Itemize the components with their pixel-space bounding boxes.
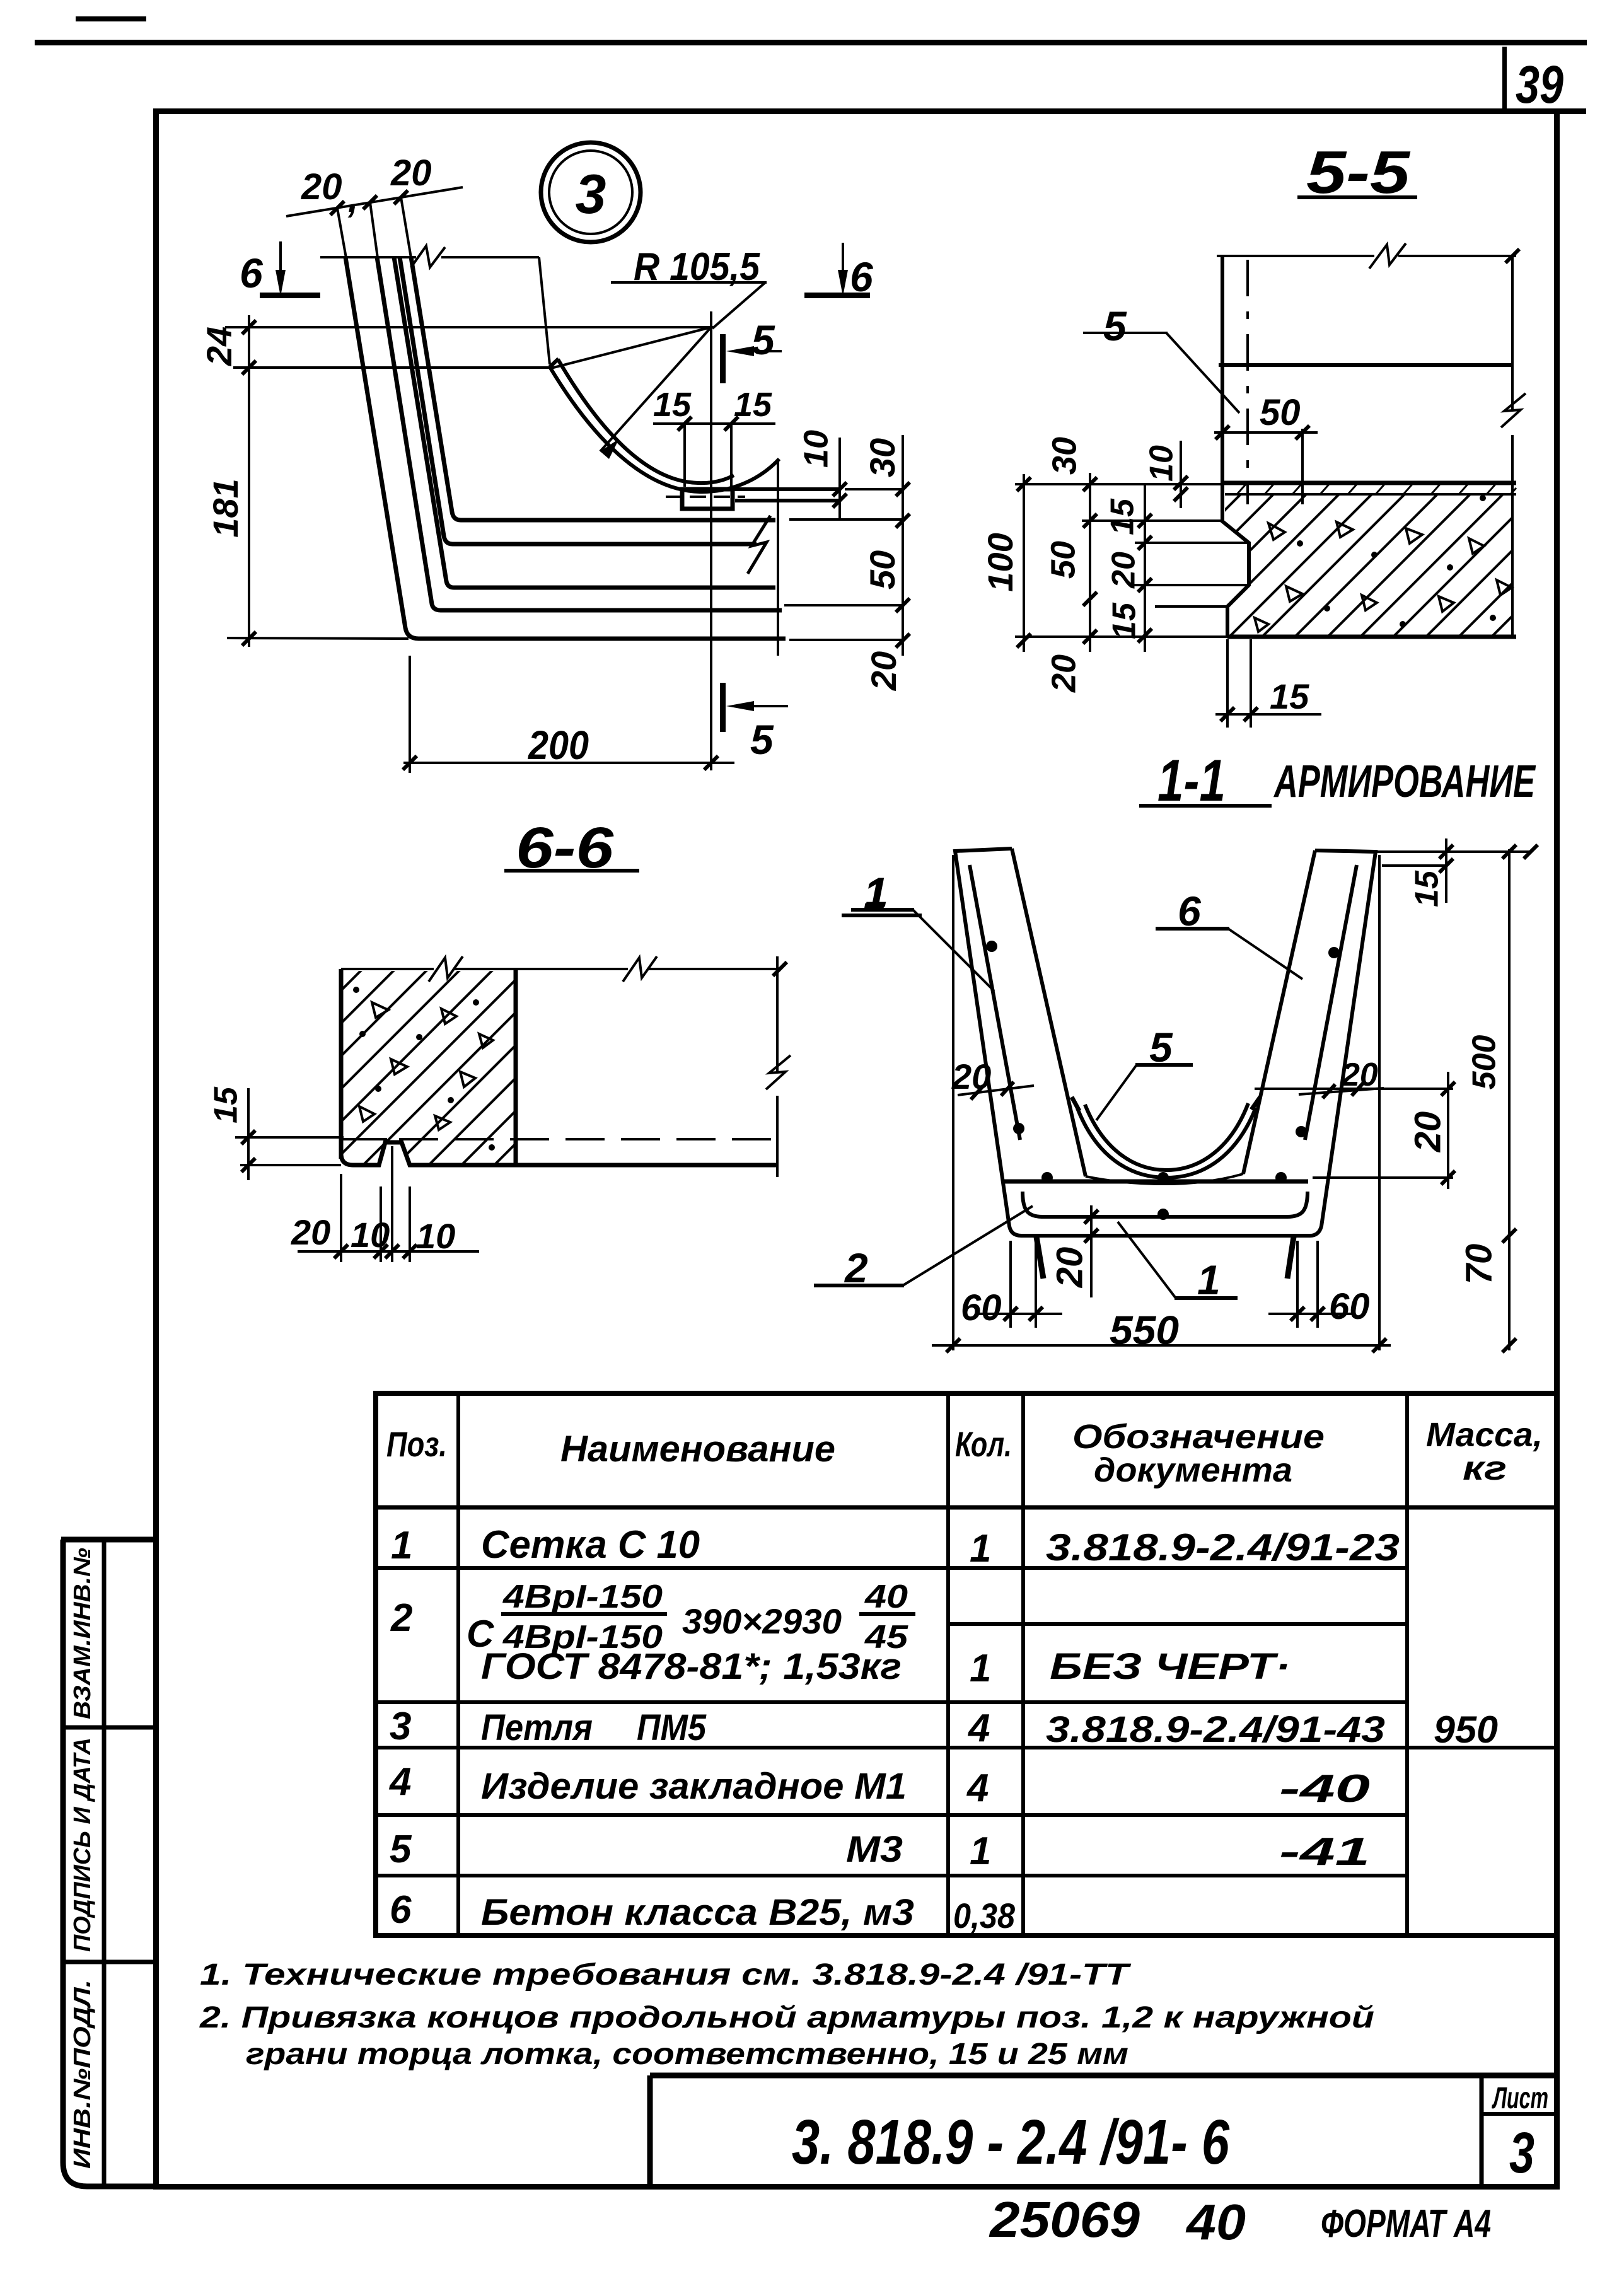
block left edge <box>339 969 344 1159</box>
slab bottom thick <box>1227 635 1516 639</box>
svg-text:4ВрI-150: 4ВрI-150 <box>502 1579 663 1615</box>
ext 550 left <box>952 855 954 1350</box>
title block list underline <box>1482 2112 1557 2116</box>
stamp column outer border <box>61 1540 156 2186</box>
ext 66 v4 <box>409 1187 411 1262</box>
inner wall surface <box>539 257 550 364</box>
svg-text:30: 30 <box>1045 437 1083 475</box>
slab top thick <box>1222 481 1516 485</box>
svg-text:грани торца лотка, соответстве: грани торца лотка, соответственно, 15 и … <box>246 2038 1128 2071</box>
svg-text:-40: -40 <box>1279 1767 1370 1811</box>
tick c2 <box>1083 514 1097 528</box>
tick 20B a <box>1084 1210 1098 1224</box>
radius arrowhead <box>600 439 619 459</box>
svg-text:ВЗАМ.ИНВ.№: ВЗАМ.ИНВ.№ <box>69 1548 96 1719</box>
tick 500 bottom <box>1502 1229 1516 1243</box>
break squiggle 66a <box>429 956 463 982</box>
svg-text:ПМ5: ПМ5 <box>637 1707 707 1748</box>
leader 1 top diagonal <box>913 910 994 991</box>
tick 70 bottom <box>1502 1338 1516 1352</box>
svg-text:6: 6 <box>390 1888 412 1932</box>
svg-text:5: 5 <box>751 316 775 363</box>
ext 15 line <box>1382 864 1446 867</box>
dim 60 left line <box>979 1313 1062 1315</box>
marker 5 top bar <box>720 334 726 383</box>
wall line C <box>394 257 775 588</box>
tick f1 <box>1221 707 1234 721</box>
mesh dot b <box>1157 1172 1169 1183</box>
marker 5 top arrowhead <box>726 346 754 356</box>
groove dashed axis <box>666 496 745 498</box>
svg-text:390×2930: 390×2930 <box>682 1601 842 1641</box>
right wall rebar <box>1305 865 1357 1140</box>
extension line 24 bottom <box>233 366 550 369</box>
svg-text:30: 30 <box>862 438 902 477</box>
tick 24 bottom <box>242 361 256 374</box>
svg-text:1: 1 <box>970 1527 991 1570</box>
svg-text:2: 2 <box>390 1596 412 1640</box>
ledge bottom line <box>735 499 841 502</box>
right wall inner face <box>1243 850 1315 1174</box>
wall top edge with break <box>320 256 539 258</box>
svg-text:2. Привязка концов продольной: 2. Привязка концов продольной арматуры п… <box>199 2001 1374 2034</box>
centerline vertical <box>710 311 712 770</box>
section 5-5 underline <box>1297 195 1417 199</box>
tick 20R b <box>1352 1082 1364 1096</box>
table row line 3 <box>376 1746 1557 1749</box>
tick 20L a <box>971 1086 983 1099</box>
svg-text:100: 100 <box>980 533 1020 591</box>
svg-text:3: 3 <box>1509 2121 1534 2185</box>
left foot <box>1036 1237 1043 1279</box>
svg-text:6: 6 <box>240 250 264 296</box>
dim 15 66 vertical <box>247 1088 250 1180</box>
tick h3 <box>385 1245 399 1258</box>
liner left hook <box>1072 1097 1079 1111</box>
svg-text:10: 10 <box>416 1216 455 1256</box>
ext 15 66 top <box>235 1136 344 1139</box>
rebar dot c <box>1328 947 1340 958</box>
svg-text:,: , <box>347 179 358 220</box>
ext 66 v1 <box>340 1174 342 1262</box>
svg-text:Лист: Лист <box>1492 2082 1548 2115</box>
R leader underline <box>611 281 767 284</box>
title block left <box>647 2075 653 2186</box>
groove rectangle <box>682 489 733 509</box>
dashed axis <box>1246 260 1249 504</box>
marker 2 underline <box>814 1284 904 1287</box>
tick 30 top <box>896 482 910 496</box>
tick c1 <box>1083 477 1097 491</box>
detail circle 3 outer <box>541 142 641 242</box>
marker 6 left arrow <box>279 241 282 281</box>
tick 15 right <box>724 417 738 431</box>
svg-text:R 105,5: R 105,5 <box>634 245 760 289</box>
ext ledge to chain <box>845 488 903 490</box>
left wall inner face <box>1012 849 1086 1176</box>
svg-text:5: 5 <box>750 716 774 763</box>
dim 200 line <box>403 762 734 764</box>
ext 66 v2 <box>380 1187 382 1262</box>
frame top edge <box>153 108 1586 114</box>
liner outer arc <box>550 367 779 492</box>
tick f2 <box>1244 707 1258 721</box>
svg-text:Изделие закладное М1: Изделие закладное М1 <box>481 1766 907 1807</box>
radius line 1 <box>551 327 711 368</box>
svg-text:20: 20 <box>301 166 342 207</box>
dim 10 vertical 5-5 <box>1180 441 1182 508</box>
tick 100 bottom <box>1017 634 1031 647</box>
tick A <box>330 201 344 215</box>
left wall outline <box>955 849 1376 1236</box>
svg-text:50: 50 <box>1260 392 1301 433</box>
section 1-1 underline <box>1139 804 1272 808</box>
tick top right <box>1505 249 1519 263</box>
tick e1 <box>1174 476 1188 490</box>
stamp divider podpis/inv <box>61 1960 156 1964</box>
ext slab top to chain <box>789 518 903 521</box>
right edge vertical 66 <box>776 956 779 1177</box>
tick d1 <box>1138 514 1152 528</box>
svg-text:50: 50 <box>862 550 902 589</box>
svg-text:15: 15 <box>1105 498 1141 535</box>
leader 6 underline <box>1156 927 1229 931</box>
svg-text:3: 3 <box>390 1705 411 1748</box>
wall line B <box>377 257 782 610</box>
title block list divider <box>1480 2075 1484 2186</box>
dim chain 15-20-15 vertical <box>1144 484 1146 652</box>
svg-text:Бетон класса В25, м3: Бетон класса В25, м3 <box>481 1892 914 1933</box>
ext 15 bottom a <box>1226 639 1229 728</box>
svg-text:39: 39 <box>1516 55 1563 114</box>
dim 60 right ext b <box>1316 1241 1319 1328</box>
ext 50 right <box>1301 429 1304 504</box>
leader 1 bottom underline <box>1174 1296 1238 1300</box>
tick g2 <box>241 1158 255 1172</box>
dim 20 bottom center vertical <box>1090 1205 1093 1297</box>
top page rule <box>35 40 1587 45</box>
svg-text:20: 20 <box>864 651 903 691</box>
ext 15 bottom b <box>1250 639 1252 728</box>
tick 30 bottom <box>896 514 910 528</box>
frame left edge <box>153 108 159 2189</box>
extension line 24 top <box>225 326 714 328</box>
table row line 1 <box>376 1566 1407 1570</box>
svg-text:200: 200 <box>528 722 589 768</box>
stamp column inner divider <box>102 1540 107 2186</box>
wall extension A <box>337 208 346 258</box>
tick 20R a <box>1323 1084 1335 1098</box>
tick 60L b <box>1029 1307 1043 1321</box>
break squiggle mesh line <box>748 516 770 574</box>
tick 20 bottom <box>896 634 910 647</box>
extension line bottom left <box>227 638 409 639</box>
dim 15 bottom 5-5 line <box>1215 713 1321 716</box>
svg-text:3. 818.9 - 2.4 /91- 6: 3. 818.9 - 2.4 /91- 6 <box>792 2107 1230 2178</box>
table col line oboznachenie <box>1405 1393 1409 1935</box>
svg-text:3.818.9-2.4/91-23: 3.818.9-2.4/91-23 <box>1046 1526 1400 1569</box>
marker 6 left bar <box>260 293 320 298</box>
marker 5 top arrow <box>733 350 782 352</box>
tick h2 <box>374 1245 388 1258</box>
dim 60 left ext a <box>1009 1241 1012 1328</box>
marker 6 right arrowhead <box>838 270 848 296</box>
mesh solid segment inside block <box>343 1138 387 1140</box>
svg-text:М3: М3 <box>846 1829 903 1870</box>
slab layer line <box>1225 493 1516 496</box>
svg-text:20: 20 <box>390 153 432 194</box>
marker 5 bottom bar <box>720 683 726 732</box>
dim 550 line <box>932 1344 1391 1347</box>
dim 20 right wall line <box>1299 1088 1384 1094</box>
table outer border <box>376 1393 1557 1935</box>
svg-text:1: 1 <box>970 1647 991 1690</box>
page number divider <box>1502 47 1507 111</box>
svg-text:1: 1 <box>1197 1256 1221 1303</box>
svg-text:1: 1 <box>391 1524 412 1567</box>
tick top a <box>1439 845 1453 859</box>
svg-text:5: 5 <box>390 1828 412 1871</box>
rebar dot d <box>1296 1126 1307 1137</box>
leader 5 diagonal <box>1096 1065 1137 1120</box>
right dim chain vertical <box>902 435 904 656</box>
break squiggle top <box>1369 243 1406 269</box>
tick 550 right <box>1372 1338 1386 1352</box>
svg-text:24: 24 <box>199 327 239 366</box>
ext bottom to chain <box>789 639 903 641</box>
marker 5 bottom arrow <box>733 705 788 707</box>
dim 20 right vertical <box>1447 1072 1449 1189</box>
title block top <box>650 2073 1557 2079</box>
svg-text:Поз.: Поз. <box>386 1424 447 1464</box>
stamp divider vzam/podpis <box>61 1726 156 1730</box>
top line with break <box>1217 255 1516 257</box>
wall line A outer face <box>345 257 786 639</box>
ext 550 right <box>1378 855 1381 1350</box>
rebar dot b <box>1013 1123 1024 1134</box>
tick d3 <box>1138 578 1152 592</box>
mesh dot d <box>1157 1209 1169 1220</box>
top dim line right <box>1376 850 1531 853</box>
table header line <box>376 1506 1557 1510</box>
svg-text:70: 70 <box>1458 1244 1499 1285</box>
svg-text:1-1: 1-1 <box>1157 747 1226 813</box>
tick 20V b <box>1441 1171 1455 1185</box>
tick d4 <box>1138 629 1152 642</box>
svg-text:40: 40 <box>1185 2194 1246 2250</box>
svg-text:Сетка С 10: Сетка С 10 <box>481 1523 700 1567</box>
ext line 20a <box>1128 584 1249 586</box>
ext 200 left <box>409 656 411 773</box>
wall extension B <box>370 202 378 258</box>
break squiggle top edge <box>411 246 445 267</box>
liner right hook <box>1251 1097 1260 1110</box>
svg-text:20: 20 <box>1045 654 1082 693</box>
tick top b <box>1524 845 1538 859</box>
dim 60 left ext b <box>1035 1241 1037 1328</box>
bottom dim line 66 <box>298 1250 479 1253</box>
top-left scan dash <box>76 16 146 21</box>
dim 10 vertical <box>838 438 841 518</box>
break squiggle 66b <box>623 956 657 982</box>
svg-text:-41: -41 <box>1279 1830 1370 1874</box>
tick 200 right <box>704 756 718 770</box>
svg-text:10: 10 <box>351 1215 390 1255</box>
concrete triangles 5-5 <box>1255 522 1512 632</box>
svg-text:ИНВ.№ПОДЛ.: ИНВ.№ПОДЛ. <box>69 1980 96 2169</box>
concrete triangles 6-6 <box>359 1002 493 1130</box>
dim 100 vertical <box>1023 474 1025 652</box>
lower mesh with upturned ends <box>1023 1192 1308 1217</box>
table col line naimenovanie <box>946 1393 950 1935</box>
wall line C2 <box>400 257 757 544</box>
row2 fraction2 bar <box>859 1612 915 1616</box>
svg-text:15: 15 <box>1106 602 1143 639</box>
tick 500 top <box>1502 845 1516 859</box>
tick 20B b <box>1084 1229 1098 1243</box>
svg-text:ПОДПИСЬ И ДАТА: ПОДПИСЬ И ДАТА <box>69 1738 96 1952</box>
svg-text:4: 4 <box>966 1767 989 1810</box>
leader 6 diagonal <box>1228 929 1302 979</box>
tick 200 left <box>403 756 417 770</box>
ext 15 66 bottom <box>240 1164 341 1166</box>
svg-text:Наименование: Наименование <box>560 1429 835 1470</box>
svg-text:50: 50 <box>1044 541 1082 579</box>
svg-text:15: 15 <box>653 386 692 424</box>
left wall rebar <box>970 865 1020 1140</box>
tick 550 left <box>946 1338 960 1352</box>
concrete dots 6-6 <box>353 987 495 1151</box>
wall line D inner <box>411 257 775 520</box>
marker 6 right bar <box>804 293 870 298</box>
tick e2 <box>1174 487 1188 501</box>
interior surface curve <box>1086 1174 1243 1184</box>
marker 2 leader <box>903 1206 1033 1285</box>
marker 6 left arrowhead <box>275 270 286 296</box>
ext line 15b <box>1155 605 1227 608</box>
svg-text:0,38: 0,38 <box>953 1896 1016 1935</box>
svg-text:1. Технические требования см.: 1. Технические требования см. 3.818.9-2.… <box>200 1958 1132 1992</box>
svg-text:БЕЗ ЧЕРТ·: БЕЗ ЧЕРТ· <box>1050 1646 1290 1687</box>
tick 15a <box>1439 859 1453 873</box>
tick 50 right <box>1296 426 1309 439</box>
svg-text:20: 20 <box>951 1057 991 1096</box>
svg-text:15: 15 <box>1409 870 1446 907</box>
hatch 6-6 <box>113 958 734 1185</box>
svg-text:550: 550 <box>1110 1308 1179 1353</box>
dim 60 right ext a <box>1296 1241 1299 1328</box>
tick c3 <box>1083 592 1097 606</box>
svg-text:40: 40 <box>864 1579 908 1615</box>
tick 20L b <box>1001 1082 1014 1096</box>
svg-text:ГОСТ 8478-81*; 1,53кг: ГОСТ 8478-81*; 1,53кг <box>481 1646 902 1687</box>
svg-text:950: 950 <box>1434 1709 1498 1751</box>
leader 5 horizontal <box>1083 332 1168 334</box>
ext mesh to chain <box>784 604 903 606</box>
dim 50 line <box>1214 431 1318 434</box>
tick C <box>394 190 408 204</box>
bottom thick with notch <box>341 1142 777 1165</box>
hatch 5-5 <box>1034 467 1624 668</box>
block right edge <box>514 969 518 1165</box>
svg-text:3: 3 <box>576 163 606 225</box>
ext 20 curve level <box>1255 1088 1453 1090</box>
tick g1 <box>241 1130 255 1144</box>
right ends vertical ext <box>777 459 779 656</box>
tick 50 left <box>1215 426 1229 439</box>
ext line 15a <box>1135 542 1249 544</box>
svg-text:15: 15 <box>1270 676 1309 716</box>
dim 60 right line <box>1268 1313 1355 1315</box>
radius line 2 <box>600 327 711 451</box>
tick 100 top <box>1017 477 1031 491</box>
svg-text:ФОРМАТ А4: ФОРМАТ А4 <box>1321 2202 1491 2246</box>
svg-text:15: 15 <box>734 386 772 424</box>
svg-text:10: 10 <box>797 430 835 468</box>
tick 10 top <box>833 482 847 496</box>
liner left end cap <box>550 359 559 367</box>
right foot <box>1287 1237 1294 1279</box>
svg-text:Масса,: Масса, <box>1426 1416 1543 1454</box>
liner inner arc <box>1085 1103 1248 1170</box>
ext line 30 bottom <box>1082 519 1222 522</box>
svg-text:20: 20 <box>1049 1247 1090 1289</box>
ext line bottom left <box>1015 635 1227 638</box>
leader 1 top underline <box>851 908 914 912</box>
mesh bottom chord <box>1004 1180 1308 1184</box>
table row line 2 <box>376 1700 1407 1704</box>
tick d2 <box>1138 536 1152 550</box>
concrete dots 5-5 <box>1297 495 1496 627</box>
svg-text:3.818.9-2.4/91-43: 3.818.9-2.4/91-43 <box>1046 1709 1385 1750</box>
svg-text:500: 500 <box>1466 1035 1503 1090</box>
mid line <box>1219 363 1513 367</box>
section 6-6 underline <box>504 869 639 873</box>
tick 20V a <box>1441 1082 1455 1096</box>
tick h4 <box>403 1245 417 1258</box>
leader 5 diagonal <box>1166 333 1239 413</box>
marker 5 bottom arrowhead <box>726 701 754 711</box>
mesh dot a <box>1041 1172 1053 1183</box>
frame right edge <box>1554 108 1560 2189</box>
tick 10 bottom <box>833 494 847 508</box>
svg-text:1: 1 <box>970 1830 991 1873</box>
wall extension D <box>401 197 411 258</box>
dim 20 left wall line <box>958 1086 1034 1095</box>
break squiggle 66 right <box>766 1055 791 1089</box>
top line with breaks <box>341 968 780 970</box>
rebar dot a <box>986 941 997 952</box>
marker 6 right arrow <box>842 243 844 281</box>
tick 15 left <box>678 417 692 431</box>
svg-text:документа: документа <box>1094 1451 1292 1489</box>
tick h1 <box>334 1245 348 1258</box>
svg-text:60: 60 <box>1329 1286 1370 1327</box>
liner outer arc <box>1077 1108 1256 1178</box>
svg-text:20: 20 <box>1106 552 1142 589</box>
table col line kol <box>1021 1393 1025 1935</box>
tick 60R b <box>1311 1307 1325 1321</box>
svg-text:5: 5 <box>1103 303 1127 349</box>
left dim line <box>248 315 250 647</box>
tick top right 66 <box>773 962 787 976</box>
R leader diagonal <box>712 282 765 328</box>
ledge top line <box>733 487 841 491</box>
frame bottom edge <box>153 2184 1560 2190</box>
table row line 5 <box>376 1874 1407 1877</box>
break squiggle right edge <box>1501 393 1526 427</box>
dim 15 vertical <box>1445 838 1447 903</box>
